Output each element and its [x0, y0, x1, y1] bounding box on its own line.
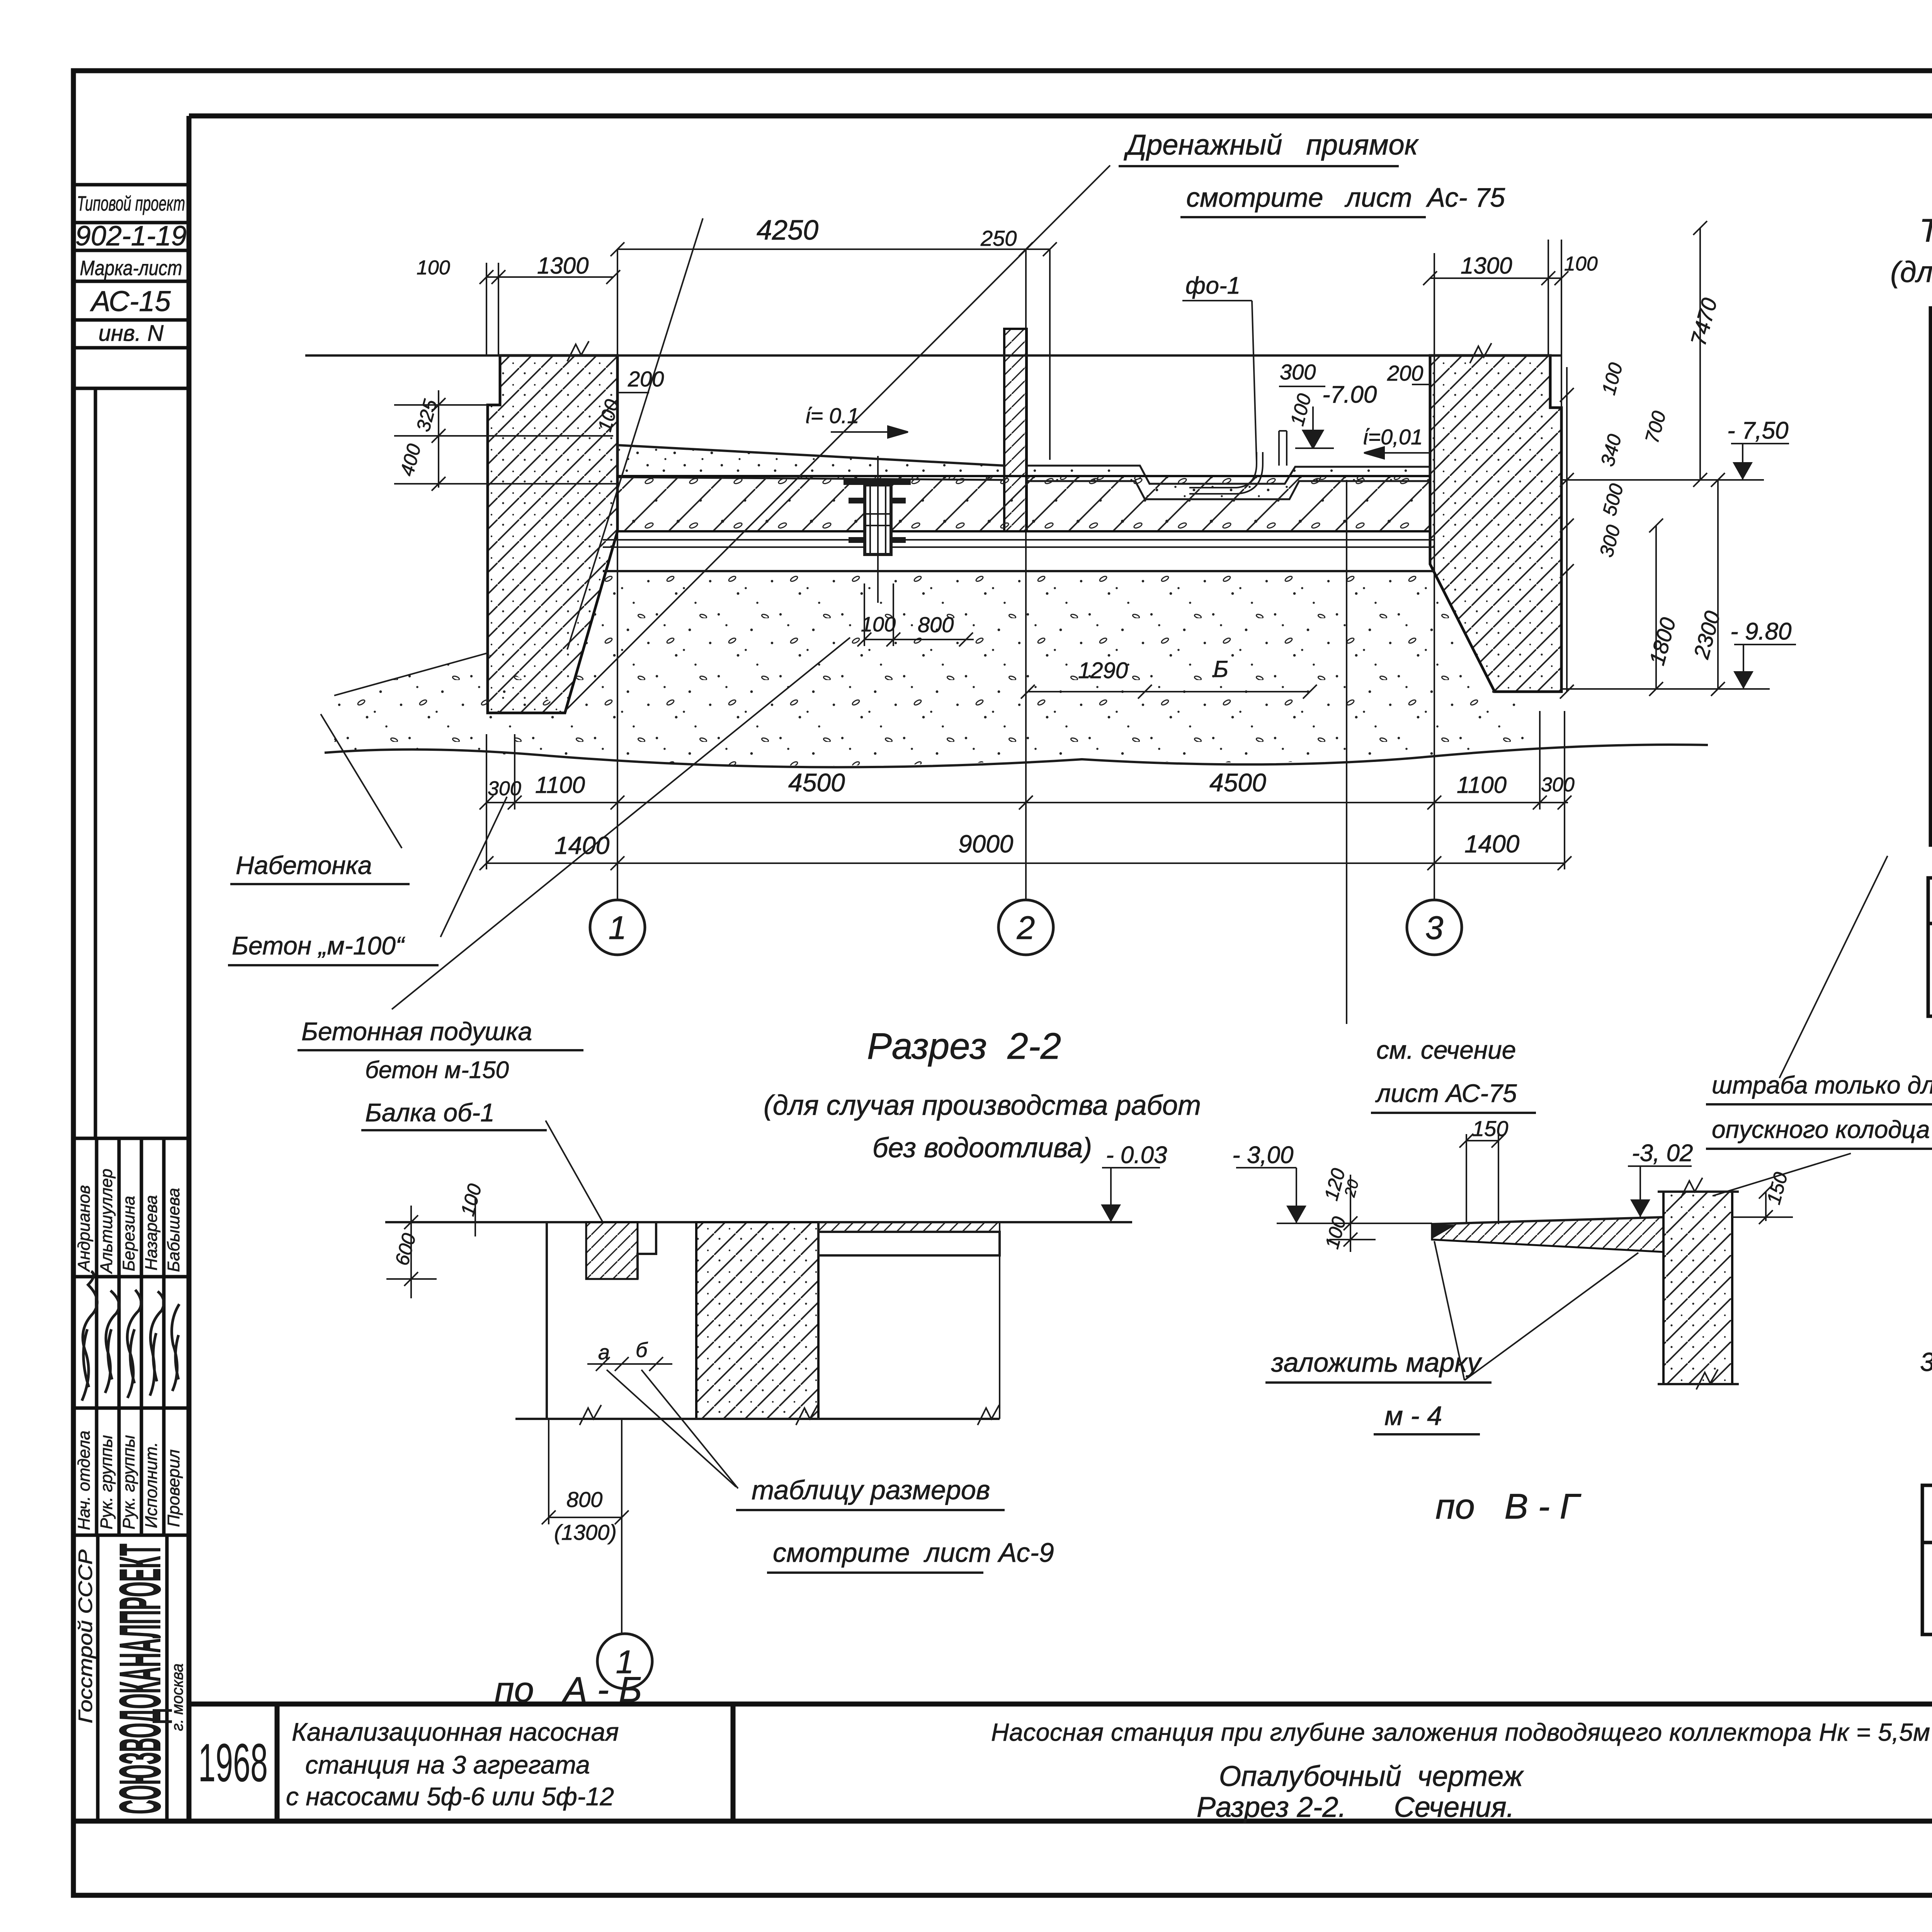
svg-text:Березина: Березина: [119, 1196, 138, 1271]
svg-text:Бетонная подушка: Бетонная подушка: [301, 1017, 532, 1046]
svg-text:3. Гидроизоляцию стен и дн: 3. Гидроизоляцию стен и днища: [1920, 1347, 1932, 1377]
svg-text:2300: 2300: [1689, 608, 1725, 662]
svg-text:1100: 1100: [1457, 772, 1507, 798]
svg-text:700: 700: [1641, 409, 1670, 446]
svg-text:Назарева: Назарева: [142, 1195, 161, 1270]
svg-text:800: 800: [918, 612, 954, 637]
svg-text:штраба только для: штраба только для: [1712, 1071, 1932, 1099]
svg-text:100: 100: [861, 613, 896, 636]
svg-text:500: 500: [1599, 481, 1628, 518]
svg-text:1800: 1800: [1645, 615, 1680, 668]
svg-text:200: 200: [628, 367, 664, 391]
svg-text:Таблица сальников для труб диа: Таблица сальников для труб диаметра d: [1919, 212, 1932, 248]
svg-text:(1300): (1300): [554, 1520, 617, 1544]
svg-text:Альтшуллер: Альтшуллер: [97, 1168, 116, 1274]
svg-text:1100: 1100: [535, 772, 585, 798]
svg-text:Дренажный приямок: Дренажный приямок: [1124, 129, 1419, 161]
svg-text:- 0.03: - 0.03: [1106, 1142, 1167, 1168]
svg-text:1968: 1968: [198, 1732, 268, 1793]
svg-text:800: 800: [566, 1487, 602, 1512]
svg-text:Балка об-1: Балка об-1: [365, 1098, 495, 1127]
svg-text:см. сечение: см. сечение: [1376, 1036, 1516, 1064]
svg-text:(для случая производства работ: (для случая производства работ без водоо…: [1890, 256, 1932, 289]
svg-text:4250: 4250: [757, 215, 818, 246]
svg-text:100: 100: [417, 257, 450, 279]
svg-text:1400: 1400: [1464, 830, 1520, 858]
svg-text:без водоотлива): без водоотлива): [872, 1133, 1092, 1163]
svg-text:Насосная станция при глубине з: Насосная станция при глубине заложения п…: [991, 1718, 1930, 1746]
svg-text:1300: 1300: [1461, 253, 1512, 279]
svg-text:смотрите лист Ас- 75: смотрите лист Ас- 75: [1186, 182, 1505, 213]
svg-text:9000: 9000: [958, 830, 1014, 858]
svg-text:станция на 3 агрегата: станция на 3 агрегата: [305, 1750, 590, 1779]
svg-text:250: 250: [980, 226, 1017, 250]
svg-text:100: 100: [1321, 1214, 1350, 1251]
svg-text:фо-1: фо-1: [1185, 272, 1240, 299]
svg-text:Канализационная насосная: Канализационная насосная: [292, 1718, 619, 1746]
svg-text:Марка-лист: Марка-лист: [80, 257, 182, 280]
svg-text:902-1-19: 902-1-19: [75, 221, 187, 252]
svg-text:100: 100: [457, 1182, 486, 1218]
svg-text:1290: 1290: [1078, 658, 1128, 683]
svg-text:200: 200: [1387, 361, 1423, 385]
svg-text:100: 100: [1286, 391, 1316, 428]
svg-text:Типовой проект: Типовой проект: [77, 192, 185, 215]
svg-text:-3, 02: -3, 02: [1632, 1140, 1693, 1167]
svg-text:АС-15: АС-15: [90, 285, 171, 317]
svg-text:по А - Б: по А - Б: [495, 1670, 642, 1709]
svg-text:1300: 1300: [537, 253, 588, 279]
svg-text:г. москва: г. москва: [168, 1663, 186, 1731]
svg-text:100: 100: [1564, 253, 1598, 275]
svg-text:Андрианов: Андрианов: [75, 1185, 94, 1272]
svg-text:заложить марку: заложить марку: [1271, 1347, 1482, 1378]
svg-text:325: 325: [412, 397, 442, 434]
svg-text:150: 150: [1472, 1116, 1508, 1141]
svg-text:Бабышева: Бабышева: [164, 1188, 183, 1272]
svg-text:1: 1: [609, 910, 627, 946]
svg-text:(для случая производства работ: (для случая производства работ: [764, 1090, 1201, 1121]
svg-text:300: 300: [1595, 523, 1625, 560]
svg-text:таблицу размеров: таблицу размеров: [752, 1475, 990, 1505]
svg-text:3: 3: [1425, 910, 1444, 946]
svg-text:ί=0,01: ί=0,01: [1363, 425, 1423, 449]
svg-text:инв. N: инв. N: [99, 321, 164, 346]
svg-text:Рук. группы: Рук. группы: [119, 1435, 138, 1529]
svg-text:опускного колодца: опускного колодца: [1712, 1116, 1930, 1143]
svg-text:300: 300: [1280, 360, 1316, 384]
svg-text:100: 100: [1598, 361, 1627, 397]
svg-text:-7.00: -7.00: [1322, 381, 1377, 408]
svg-text:Разрез 2-2. Сечения.: Разрез 2-2. Сечения.: [1197, 1791, 1514, 1823]
svg-text:м - 4: м - 4: [1384, 1401, 1442, 1431]
svg-text:б: б: [636, 1338, 648, 1362]
svg-text:4500: 4500: [1209, 768, 1266, 797]
svg-text:Бетон „м-100“: Бетон „м-100“: [232, 931, 405, 960]
svg-text:Разрез 2-2: Разрез 2-2: [867, 1026, 1061, 1067]
svg-text:Нач. отдела: Нач. отдела: [75, 1430, 94, 1530]
svg-text:Б: Б: [1213, 656, 1228, 682]
svg-text:Набетонка: Набетонка: [236, 851, 372, 879]
svg-text:- 9.80: - 9.80: [1730, 618, 1792, 645]
svg-text:400: 400: [396, 442, 425, 478]
svg-text:4500: 4500: [788, 768, 845, 797]
svg-text:7470: 7470: [1686, 295, 1722, 348]
svg-text:Рук. группы: Рук. группы: [97, 1435, 116, 1529]
svg-text:лист АС-75: лист АС-75: [1375, 1079, 1517, 1107]
svg-text:Исполнит.: Исполнит.: [142, 1442, 161, 1528]
svg-text:600: 600: [391, 1231, 420, 1268]
svg-text:- 3,00: - 3,00: [1232, 1142, 1294, 1168]
svg-text:300: 300: [488, 777, 521, 800]
svg-text:Проверил: Проверил: [164, 1449, 183, 1527]
svg-text:300: 300: [1541, 774, 1575, 796]
svg-text:с насосами 5ф-6 или 5ф-12: с насосами 5ф-6 или 5ф-12: [286, 1782, 614, 1811]
svg-text:Госстрой СССР: Госстрой СССР: [75, 1549, 96, 1723]
svg-text:Опалубочный чертеж: Опалубочный чертеж: [1219, 1760, 1524, 1792]
svg-text:- 7,50: - 7,50: [1727, 417, 1789, 444]
svg-text:340: 340: [1597, 432, 1626, 469]
svg-text:бетон м-150: бетон м-150: [365, 1057, 509, 1083]
svg-text:СОЮЗВОДОКАНАЛПРОЕКТ: СОЮЗВОДОКАНАЛПРОЕКТ: [107, 1544, 172, 1814]
svg-text:смотрите лист Ас-9: смотрите лист Ас-9: [773, 1537, 1054, 1568]
svg-text:а: а: [598, 1341, 610, 1364]
svg-text:2: 2: [1017, 910, 1035, 946]
svg-text:по В - Г: по В - Г: [1435, 1487, 1582, 1526]
